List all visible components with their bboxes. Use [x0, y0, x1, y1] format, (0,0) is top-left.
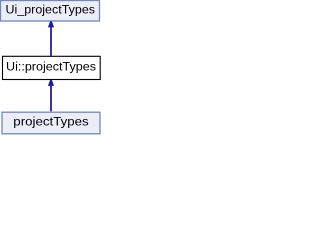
svg-text:Ui::projectTypes: Ui::projectTypes	[6, 59, 96, 73]
svg-text:projectTypes: projectTypes	[13, 114, 88, 128]
svg-text:Ui_projectTypes: Ui_projectTypes	[6, 2, 96, 16]
inheritance arrow from projectTypes to Ui::projectTypes	[48, 80, 54, 111]
node Ui_projectTypes	[1, 1, 100, 22]
inheritance arrow from Ui::projectTypes to Ui_projectTypes	[48, 21, 54, 56]
node Ui::projectTypes	[3, 56, 101, 79]
background	[0, 0, 103, 136]
node projectTypes	[2, 112, 100, 134]
